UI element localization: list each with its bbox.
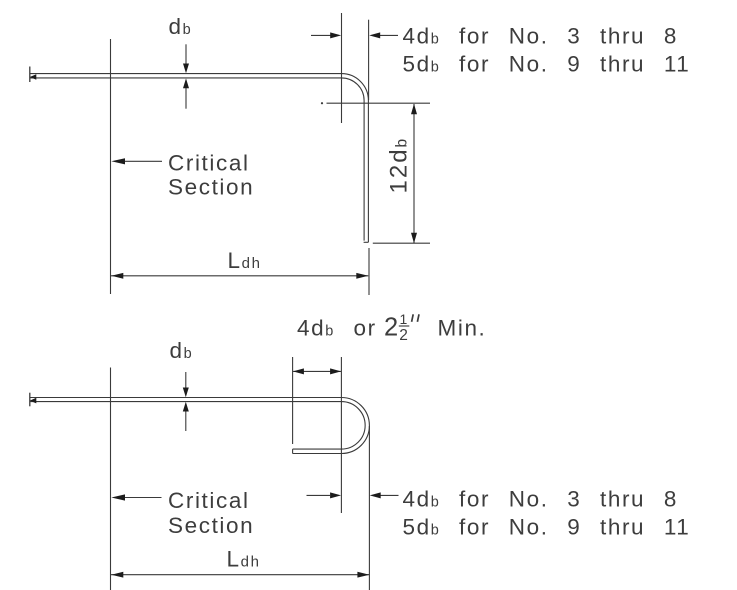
Ldh arrow head right (bottom figure) <box>357 572 369 578</box>
double prime inch mark (bottom figure) <box>412 314 419 322</box>
4db dimension leader line left (top figure) <box>311 34 332 36</box>
12db arrow head down (top figure) <box>411 233 417 244</box>
db arrow head up (top figure) <box>183 78 189 88</box>
hook width dimension line (bottom figure) <box>293 370 341 372</box>
stray dot at start of 12db top extension line (top figure) <box>321 102 323 104</box>
Ldh arrow head left (bottom figure) <box>111 572 123 578</box>
wire: top bar inner line with 90-deg bend (top figure) <box>30 78 364 241</box>
svg-text:Section: Section <box>168 174 254 199</box>
svg-text:4db for No. 3 thru 8: 4db for No. 3 thru 8 <box>403 24 678 49</box>
svg-text:Ldh: Ldh <box>227 547 261 572</box>
wire: bottom bar outer line with 180-deg hook (bottom figure) <box>30 398 369 454</box>
bar left end arrow mark (bottom figure) <box>30 398 37 404</box>
db dimension arrow line below bar (bottom figure) <box>185 410 187 431</box>
4db dimension leader line right (top figure) <box>378 34 398 36</box>
critical section extension line (top figure) <box>110 39 112 294</box>
critical section arrow head (top figure) <box>111 158 125 164</box>
svg-text:Section: Section <box>168 513 254 538</box>
db dimension arrow line above bar (bottom figure) <box>185 372 187 390</box>
svg-text:4db: 4db <box>297 316 335 341</box>
svg-text:5db for No. 9 thru 11: 5db for No. 9 thru 11 <box>403 515 691 540</box>
4db dimension extension line right (top figure) <box>368 20 370 100</box>
4db arrow head left (top figure) <box>369 32 380 38</box>
4db arrow head right (top figure) <box>330 32 341 38</box>
svg-text:db: db <box>169 14 193 39</box>
Ldh right extension line (top figure) <box>368 248 370 295</box>
svg-text:4db for No. 3 thru 8: 4db for No. 3 thru 8 <box>403 487 678 512</box>
wire: bottom bar inner line with 180-deg hook (bottom figure) <box>30 402 365 450</box>
hook width arrow head right (bottom figure) <box>330 368 341 374</box>
bar left end arrow mark (top figure) <box>30 74 37 80</box>
note leader line pointing left (bottom figure) <box>381 494 399 496</box>
svg-text:1: 1 <box>400 311 408 327</box>
note leader line pointing right (bottom figure) <box>307 494 331 496</box>
hook width arrow head left (bottom figure) <box>293 368 304 374</box>
bar leg bottom cap (top figure) <box>364 241 369 243</box>
svg-text:or: or <box>354 316 377 341</box>
fraction bar of 2 1/2 (bottom figure) <box>399 325 410 327</box>
svg-text:Critical: Critical <box>168 150 250 175</box>
db dimension arrow line below bar (top figure) <box>185 86 187 109</box>
Ldh dimension line (bottom figure) <box>111 574 369 576</box>
4db dimension extension line left (top figure) <box>341 13 343 123</box>
Ldh arrow head left (top figure) <box>111 273 123 279</box>
critical section arrow head (bottom figure) <box>111 494 125 500</box>
hook return leg end cap (bottom figure) <box>292 449 294 453</box>
12db bottom extension line (top figure) <box>373 242 430 244</box>
db arrow head down (bottom figure) <box>183 388 189 398</box>
12db dimension line (top figure) <box>413 104 415 243</box>
12db top extension line (top figure) <box>327 102 431 104</box>
hook width extension line right (bottom figure) <box>340 357 342 513</box>
db arrow head down (top figure) <box>183 64 189 74</box>
note arrow head left (bottom figure) <box>370 492 381 498</box>
svg-text:12db: 12db <box>386 137 413 194</box>
svg-text:2: 2 <box>384 314 400 342</box>
12db arrow head up (top figure) <box>411 104 417 115</box>
hook outer right extension line (bottom figure) <box>368 426 370 590</box>
svg-text:Min.: Min. <box>438 316 487 341</box>
wire: top bar outer line with 90-deg bend (top figure) <box>30 74 368 243</box>
svg-text:5db for No. 9 thru 11: 5db for No. 9 thru 11 <box>403 52 691 77</box>
Ldh arrow head right (top figure) <box>356 273 368 279</box>
db dimension arrow line above bar (top figure) <box>185 44 187 66</box>
Ldh dimension line (top figure) <box>111 275 368 277</box>
bar left end tick (top figure) <box>29 67 31 83</box>
svg-text:2: 2 <box>399 327 408 344</box>
svg-text:Critical: Critical <box>168 488 250 513</box>
note arrow head right (bottom figure) <box>330 492 341 498</box>
critical section leader line (bottom figure) <box>124 497 162 499</box>
db arrow head up (bottom figure) <box>183 402 189 412</box>
critical section leader line (top figure) <box>124 160 162 162</box>
svg-text:db: db <box>170 338 194 363</box>
hook width extension line left (bottom figure) <box>292 357 294 444</box>
bar left end tick (bottom figure) <box>29 393 31 407</box>
critical section extension line (bottom figure) <box>110 368 112 590</box>
svg-text:Ldh: Ldh <box>228 248 262 273</box>
